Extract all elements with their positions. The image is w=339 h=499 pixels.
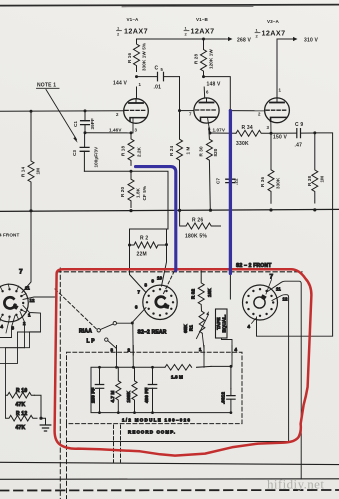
svg-text:280 PF: 280 PF	[91, 387, 96, 403]
wire S2-4 contact 4 stub	[0, 319, 9, 333]
capacitor 280 PF (module)	[99, 367, 101, 412]
label 268 V with arrow	[225, 38, 229, 40]
R2 box top	[130, 229, 169, 245]
svg-text:R 38: R 38	[307, 176, 312, 186]
wire FRONT contact 12	[272, 295, 289, 441]
node module top 400PF	[151, 366, 154, 369]
svg-text:4: 4	[235, 347, 238, 352]
wire V1-B plate node to V3-A grid node	[204, 77, 231, 111]
svg-text:7: 7	[138, 290, 141, 295]
dashed wiper line S2-4 to RIAA	[55, 289, 97, 329]
wire 310V rail V3-A	[277, 39, 294, 97]
svg-text:11: 11	[276, 287, 281, 292]
wire R10 right to R12 right	[34, 395, 41, 418]
svg-text:12AX7: 12AX7	[262, 29, 286, 38]
RIAA selector arm	[100, 324, 113, 330]
svg-text:4: 4	[248, 324, 251, 329]
annotation blue trace 2	[229, 111, 232, 274]
wire bottom line L1	[67, 441, 289, 443]
S2-4 contact ring	[0, 288, 24, 318]
wire contact 6 lead	[132, 308, 146, 323]
svg-text:65K: 65K	[183, 324, 188, 333]
box TAPE EQUAL	[216, 309, 228, 338]
svg-text:R 36: R 36	[260, 177, 265, 187]
svg-text:1/2 MODULE 130–026: 1/2 MODULE 130–026	[122, 418, 191, 423]
svg-text:EQUAL.: EQUAL.	[221, 315, 226, 333]
resistor R2	[130, 242, 167, 248]
S2-4 radial spokes	[0, 284, 26, 323]
svg-text:150 V: 150 V	[273, 135, 288, 141]
S2-2 REAR contact ring	[146, 288, 174, 316]
svg-text:144 V: 144 V	[113, 81, 128, 87]
resistor R12	[6, 415, 38, 421]
svg-text:7: 7	[189, 112, 192, 117]
svg-text:6: 6	[206, 90, 209, 95]
svg-text:R 30: R 30	[199, 146, 204, 156]
node module bottom 280PF	[98, 411, 101, 414]
V1-B plate	[200, 102, 214, 104]
resistor R26	[180, 210, 221, 229]
node R2 right	[165, 243, 168, 246]
V3-A plate	[270, 102, 284, 104]
svg-text:R 18: R 18	[121, 146, 126, 156]
svg-text:10: 10	[157, 276, 162, 281]
svg-text:.0012: .0012	[221, 392, 226, 404]
resistor R36	[268, 133, 274, 203]
node module bottom 180K	[133, 411, 136, 414]
node R36 bus	[269, 208, 272, 211]
V3-A cathode	[271, 117, 287, 121]
resistor 1.8M (module)	[165, 365, 192, 371]
capacitor C5	[137, 76, 180, 78]
svg-text:R 34: R 34	[242, 125, 253, 131]
svg-text:1: 1	[199, 347, 202, 352]
svg-text:.47: .47	[295, 143, 303, 149]
wire S2-4 contact 2	[20, 312, 25, 348]
svg-text:2: 2	[128, 348, 131, 353]
svg-text:2: 2	[258, 112, 261, 117]
svg-text:hifidiy.net: hifidiy.net	[267, 477, 324, 492]
wire grid V1-B	[180, 110, 194, 112]
resistor R18	[128, 133, 134, 166]
dashed vertical left channel	[59, 268, 61, 499]
svg-text:268 V: 268 V	[237, 38, 252, 44]
wire S2-4 contact 12	[23, 297, 56, 300]
S2-2 FRONT contact ring	[246, 288, 275, 317]
dashed bottom line L4	[0, 489, 339, 492]
resistor R16	[134, 39, 140, 71]
svg-text:1: 1	[28, 313, 31, 318]
svg-text:9: 9	[152, 279, 155, 284]
wire C3 to cathode junction	[84, 170, 131, 172]
node module pin4 corner	[230, 365, 233, 368]
module pin 2 tick	[132, 346, 134, 356]
resistor 180K (module)	[132, 367, 137, 412]
node module top 280PF	[98, 366, 101, 369]
dashed vertical module edge extension	[66, 424, 68, 499]
S2-2 FRONT rotor	[254, 297, 265, 308]
svg-text:100µF/3V: 100µF/3V	[94, 146, 99, 168]
border top edge	[0, 5, 339, 6]
wire bottom line L2	[0, 462, 339, 464]
node C1/C3 junction	[84, 131, 87, 134]
svg-text:1: 1	[185, 26, 188, 31]
svg-text:R 12: R 12	[16, 411, 27, 417]
resistor R28	[201, 39, 207, 77]
svg-text:2: 2	[117, 32, 120, 37]
svg-text:V3–A: V3–A	[267, 19, 279, 24]
triode V3-A envelope	[265, 98, 290, 123]
node module top pin3	[115, 366, 118, 369]
svg-text:3: 3	[267, 125, 270, 130]
triode V1-B envelope	[194, 98, 219, 123]
svg-text:180K 5%: 180K 5%	[185, 234, 207, 240]
node module bottom 4.7M	[117, 411, 120, 414]
wire to ground	[41, 418, 46, 424]
svg-text:1M: 1M	[320, 176, 325, 183]
resistor R38	[312, 133, 318, 203]
svg-text:2.2K: 2.2K	[137, 146, 142, 157]
svg-text:NOTE 1: NOTE 1	[37, 83, 56, 89]
svg-text:4: 4	[1, 324, 4, 329]
dashed mechanical link S2 sections	[57, 271, 302, 273]
svg-text:2: 2	[256, 34, 259, 39]
wire FRONT contact 11	[268, 281, 302, 479]
svg-text:R 24: R 24	[169, 146, 174, 156]
svg-text:47K: 47K	[16, 425, 26, 431]
V1-A cathode	[130, 118, 146, 122]
svg-text:10K: 10K	[207, 288, 212, 297]
svg-text:RIAA: RIAA	[79, 329, 92, 335]
module inner box	[91, 366, 231, 412]
svg-text:180K: 180K	[126, 391, 131, 403]
svg-text:2: 2	[185, 32, 188, 37]
svg-text:R 28: R 28	[194, 54, 199, 64]
node plate V1-A	[135, 75, 138, 78]
resistor R20	[128, 171, 134, 207]
svg-text:V1–B: V1–B	[196, 17, 208, 22]
wire S2-4 contact 1	[0, 306, 41, 348]
node R2 left	[128, 244, 131, 247]
node module bottom 400PF	[151, 411, 154, 414]
svg-text:3: 3	[12, 326, 15, 331]
svg-text:R 20: R 20	[120, 187, 125, 197]
wire B+ rail V1	[137, 38, 226, 40]
resistor R32	[198, 271, 204, 312]
module pin 3 tick	[116, 346, 118, 356]
resistor 4.7M (module)	[116, 367, 121, 412]
wire S2-4 nested L 2	[18, 331, 41, 333]
capacitor C1	[84, 111, 86, 133]
svg-text:120K 1W: 120K 1W	[209, 49, 214, 69]
wire C5 to V1-B grid node	[179, 77, 181, 111]
svg-text:1.8K: 1.8K	[136, 187, 141, 198]
svg-text:RECORD COMP.: RECORD COMP.	[128, 430, 176, 435]
V1-A plate	[129, 102, 143, 104]
svg-text:R 32: R 32	[191, 289, 196, 299]
svg-text:310 V: 310 V	[304, 38, 319, 44]
V1-B grid	[196, 109, 218, 111]
triode V1-A envelope	[124, 99, 149, 124]
annotation red box	[55, 269, 312, 455]
svg-text:C1: C1	[73, 121, 78, 127]
svg-text:47K: 47K	[16, 402, 26, 408]
V1-A grid	[125, 109, 147, 111]
node R10/R12 junction	[39, 417, 42, 420]
node cathode V3-A	[270, 132, 273, 135]
svg-text:TAPE: TAPE	[216, 317, 221, 329]
svg-text:12AX7: 12AX7	[191, 27, 215, 36]
resistor R24	[177, 111, 183, 211]
node cathode V1-B	[209, 132, 212, 135]
node R18/R20 junction	[130, 170, 133, 173]
node plate V1-B	[202, 75, 205, 78]
svg-text:C 9: C 9	[295, 122, 303, 128]
module pin 1 tick	[203, 346, 205, 356]
capacitor C7 in series with grid wire	[229, 110, 231, 179]
svg-text:4 FRONT: 4 FRONT	[0, 233, 19, 238]
wire LP to module pin 3	[108, 341, 117, 368]
svg-text:C3: C3	[72, 150, 77, 156]
svg-text:8: 8	[145, 283, 148, 288]
svg-text:820: 820	[213, 148, 218, 156]
wire FRONT contact 4	[257, 317, 333, 336]
rotary switch S2-2 REAR envelope	[143, 285, 177, 319]
wire 1.46V cathode line	[85, 132, 131, 134]
svg-text:12: 12	[283, 297, 288, 302]
ground	[40, 425, 51, 431]
svg-text:12: 12	[30, 298, 35, 303]
wire R1 to module pin 1	[202, 334, 204, 367]
node C9 out	[313, 131, 316, 134]
wire R2 right leg to switch contact 10	[162, 245, 167, 286]
rotary switch S2-4 FRONT envelope	[0, 284, 28, 322]
module dashed box 130-026	[67, 352, 243, 423]
svg-text:1: 1	[117, 26, 120, 31]
svg-text:V1–A: V1–A	[127, 17, 139, 22]
wire bottom line L3	[0, 478, 339, 481]
svg-text:39PF: 39PF	[90, 118, 95, 129]
node R20 bus	[129, 209, 132, 212]
node grid feed V3-A	[229, 109, 232, 112]
node RIAA junction	[131, 322, 134, 325]
V1-B cathode	[201, 117, 217, 121]
wire ground bus	[0, 209, 339, 211]
node R38 bus	[313, 208, 316, 211]
svg-text:R1: R1	[189, 325, 194, 331]
wire bus to S2-4 contact 11	[22, 211, 31, 293]
svg-text:R 2: R 2	[140, 236, 148, 242]
svg-text:1M: 1M	[36, 168, 41, 175]
svg-text:7: 7	[19, 269, 23, 276]
svg-text:1: 1	[279, 88, 282, 93]
svg-text:.01: .01	[154, 85, 162, 91]
capacitor C3	[83, 133, 85, 172]
svg-text:S2–2 REAR: S2–2 REAR	[138, 330, 167, 336]
svg-text:2: 2	[116, 112, 119, 117]
svg-text:C: C	[155, 66, 159, 72]
svg-text:11: 11	[25, 286, 30, 291]
node grid V1-B / R24	[178, 109, 181, 112]
rotary switch S2-2 FRONT envelope	[243, 285, 278, 320]
svg-text:L P: L P	[87, 339, 96, 345]
node cathode V1-A	[130, 131, 133, 134]
svg-text:12AX7: 12AX7	[124, 27, 148, 36]
svg-text:R 14: R 14	[21, 167, 26, 177]
svg-text:.22: .22	[234, 178, 239, 185]
wire S2-4 contact 3	[0, 316, 15, 338]
resistor R10	[6, 392, 35, 398]
wire feed to R2 box	[131, 171, 168, 229]
module pin 4 tick	[231, 346, 233, 356]
svg-text:22M: 22M	[137, 252, 147, 258]
wire TAPE EQUAL to module pin 4	[222, 338, 233, 366]
svg-text:4.7 M: 4.7 M	[110, 390, 115, 402]
node R14 bus	[29, 209, 32, 212]
node input / R14	[30, 110, 33, 113]
node module top pin2	[132, 366, 135, 369]
wire C9 node to right edge drop	[315, 133, 333, 336]
svg-text:6: 6	[135, 305, 138, 310]
annotation blue trace 1	[136, 167, 176, 271]
resistor R14	[28, 111, 34, 211]
svg-text:1.8 M: 1.8 M	[171, 375, 183, 380]
wire S2-4 contact 2 drop to R10	[6, 348, 25, 418]
svg-text:CF 5%: CF 5%	[142, 186, 147, 201]
svg-text:R 16: R 16	[127, 53, 132, 63]
capacitor .0012 (module)	[227, 396, 235, 400]
svg-text:330K: 330K	[276, 177, 281, 189]
svg-text:1 M: 1 M	[186, 146, 191, 154]
svg-text:2: 2	[23, 321, 26, 326]
dashed wiper line S2-2 REAR	[164, 268, 177, 294]
S2-4 rotor	[4, 297, 15, 308]
resistor R30	[206, 128, 212, 211]
dashed verticals below module	[114, 425, 121, 462]
wire RIAA arm to node	[117, 322, 132, 324]
node R30 bus	[209, 209, 212, 212]
potentiometer R1	[199, 311, 205, 333]
wire grid V3-A	[230, 110, 264, 112]
wire C7 to R26 right	[229, 183, 231, 299]
capacitor 400 PF (module)	[152, 367, 154, 412]
svg-text:330K 1W 5%: 330K 1W 5%	[142, 43, 147, 71]
wire RIAA node to module pin 2	[132, 323, 135, 367]
node R24 bus	[178, 209, 181, 212]
wire input line to V1-A grid	[0, 110, 124, 113]
svg-text:1.07V: 1.07V	[213, 128, 226, 133]
capacitor C9	[271, 132, 315, 134]
resistor R34	[236, 130, 271, 136]
svg-text:1: 1	[256, 28, 259, 33]
svg-text:1: 1	[139, 82, 142, 87]
svg-text:R 26: R 26	[192, 218, 203, 224]
svg-text:1.46V: 1.46V	[109, 128, 122, 133]
node plate supply V1-B	[202, 38, 205, 41]
wire cathode V1-B to R34	[210, 132, 236, 134]
svg-text:3: 3	[135, 128, 138, 133]
svg-text:C7: C7	[216, 178, 221, 184]
wire S2-4 nested L	[0, 332, 18, 363]
node module bottom .0012	[230, 411, 233, 414]
svg-text:5: 5	[161, 67, 164, 72]
svg-text:400 PF: 400 PF	[144, 387, 149, 403]
svg-text:3: 3	[111, 348, 114, 353]
svg-text:R 10: R 10	[16, 388, 27, 394]
S2-2 REAR rotor	[156, 297, 166, 307]
V3-A grid	[266, 109, 288, 111]
svg-text:8: 8	[208, 127, 211, 132]
node input / C1	[84, 109, 87, 112]
svg-text:148 V: 148 V	[207, 82, 222, 88]
wire R2 left leg to switch contact 7	[130, 245, 147, 293]
svg-text:330K: 330K	[236, 141, 249, 147]
